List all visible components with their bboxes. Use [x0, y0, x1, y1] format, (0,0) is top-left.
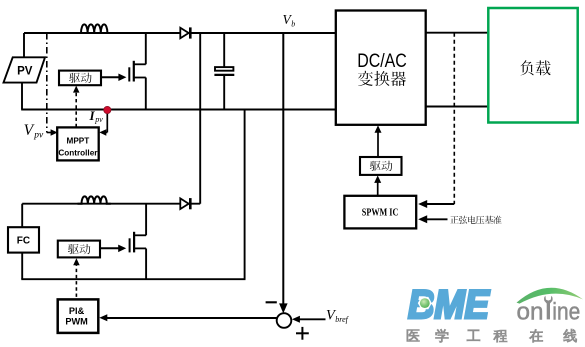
svg-text:PI&: PI&: [69, 306, 85, 316]
svg-text:pv: pv: [94, 115, 103, 124]
svg-text:bref: bref: [335, 315, 349, 324]
svg-text:PV: PV: [17, 66, 33, 78]
svg-text:FC: FC: [17, 236, 30, 247]
svg-text:pv: pv: [33, 131, 44, 141]
svg-text:V: V: [24, 122, 35, 139]
svg-text:ine: ine: [552, 298, 580, 325]
svg-text:Controller: Controller: [58, 148, 98, 157]
svg-text:DC/AC: DC/AC: [357, 51, 407, 72]
svg-text:on: on: [517, 298, 544, 325]
svg-text:PWM: PWM: [65, 317, 88, 327]
svg-text:SPWM IC: SPWM IC: [362, 208, 399, 219]
svg-text:b: b: [291, 20, 295, 29]
svg-text:MPPT: MPPT: [67, 137, 90, 146]
